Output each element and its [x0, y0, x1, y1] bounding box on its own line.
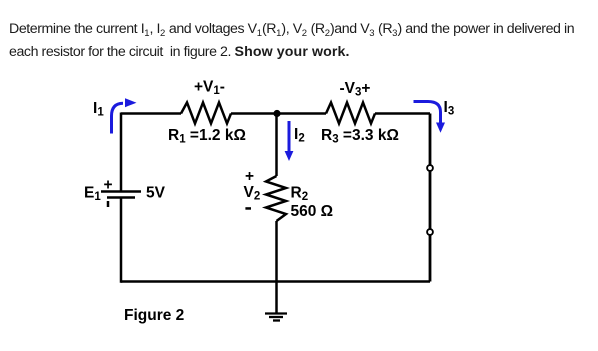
V2 minus sign — [245, 207, 251, 210]
wire middle vertical lower — [275, 221, 278, 313]
wire left vertical lower — [120, 198, 123, 283]
ground bar1 — [265, 312, 287, 314]
svg-text:I3: I3 — [444, 99, 455, 117]
ground bar3 — [273, 319, 280, 321]
svg-text:I1: I1 — [93, 100, 104, 118]
svg-text:+V1-: +V1- — [194, 79, 225, 97]
svg-text:V2: V2 — [244, 184, 261, 202]
wire R1 to junction to R3 — [231, 112, 326, 115]
resistor R1 — [181, 103, 231, 124]
svg-text:5V: 5V — [146, 185, 166, 202]
node upper on right wire — [427, 165, 433, 171]
svg-text:+: + — [104, 177, 113, 194]
ground bar2 — [269, 316, 283, 318]
svg-text:R2: R2 — [291, 185, 309, 203]
node lower on right wire — [427, 229, 433, 235]
resistor R2 — [266, 176, 286, 221]
battery minus tick — [107, 201, 110, 207]
svg-text:I2: I2 — [294, 126, 305, 144]
svg-text:+: + — [245, 168, 254, 185]
resistor R3 — [326, 103, 375, 124]
svg-text:R1 =1.2 kΩ: R1 =1.2 kΩ — [168, 127, 246, 145]
wire middle vertical upper — [275, 114, 278, 177]
svg-text:560 Ω: 560 Ω — [291, 203, 334, 220]
svg-text:Figure 2: Figure 2 — [124, 307, 184, 324]
svg-text:R3 =3.3 kΩ: R3 =3.3 kΩ — [321, 127, 399, 145]
battery E1 plate short — [107, 196, 135, 199]
wire right vertical — [429, 114, 432, 282]
current arrow I3 — [414, 102, 446, 133]
battery E1 plate long — [101, 190, 141, 193]
wire top-left segment — [121, 112, 181, 115]
wire R3 to top-right corner — [375, 112, 430, 115]
wire left vertical upper — [120, 113, 123, 192]
svg-text:-V3+: -V3+ — [340, 80, 371, 98]
svg-text:E1: E1 — [84, 185, 101, 203]
wire bottom — [121, 280, 430, 283]
junction node — [273, 110, 280, 117]
current arrow I1 — [112, 98, 137, 133]
current arrow I2 — [285, 121, 294, 161]
